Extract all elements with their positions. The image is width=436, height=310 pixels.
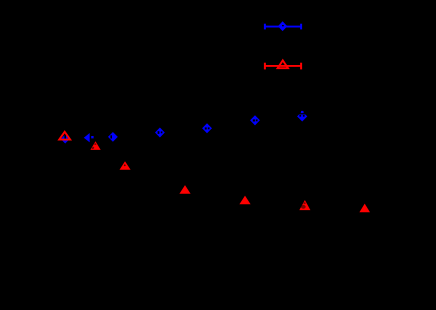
diamond D2 (right half obscured) xyxy=(84,133,94,142)
legend black dash over diamond xyxy=(282,25,284,26)
black dots over D7 xyxy=(299,115,304,117)
legend red error bar xyxy=(265,63,301,70)
diamond D7 (top tip severed by black bar) xyxy=(297,111,307,121)
blue tip blob of D7 above black bar xyxy=(301,111,304,113)
black dashes over D5 xyxy=(205,127,210,129)
black dashes over D4 xyxy=(158,131,163,134)
legend blue diamond marker xyxy=(278,21,287,31)
red filled triangle T2 xyxy=(90,141,100,150)
dark dot over T3 xyxy=(124,164,126,166)
red filled triangle T5 xyxy=(239,196,250,205)
dark blobs over T6 xyxy=(301,202,306,208)
diamond D4 xyxy=(155,128,165,138)
red filled triangle T6 xyxy=(299,200,310,210)
dark blobs over T2 xyxy=(91,143,96,149)
black vertical dash over D1 xyxy=(64,133,66,140)
diamond D1 (under open triangle T1) xyxy=(61,135,70,144)
legend red open triangle marker xyxy=(278,60,288,68)
black vertical dash over D3 xyxy=(110,135,112,138)
red filled triangle T4 xyxy=(179,185,190,194)
black dashes over D6 xyxy=(253,119,258,121)
red filled triangle T7 xyxy=(359,204,370,213)
legend blue error bar xyxy=(265,24,301,30)
black bar over D7 xyxy=(297,113,309,114)
red open triangle T1 xyxy=(59,132,70,140)
diamond D5 xyxy=(202,123,212,133)
red filled triangle T3 xyxy=(120,161,131,170)
diamond D3 xyxy=(108,132,118,142)
diamond D6 xyxy=(250,115,260,125)
